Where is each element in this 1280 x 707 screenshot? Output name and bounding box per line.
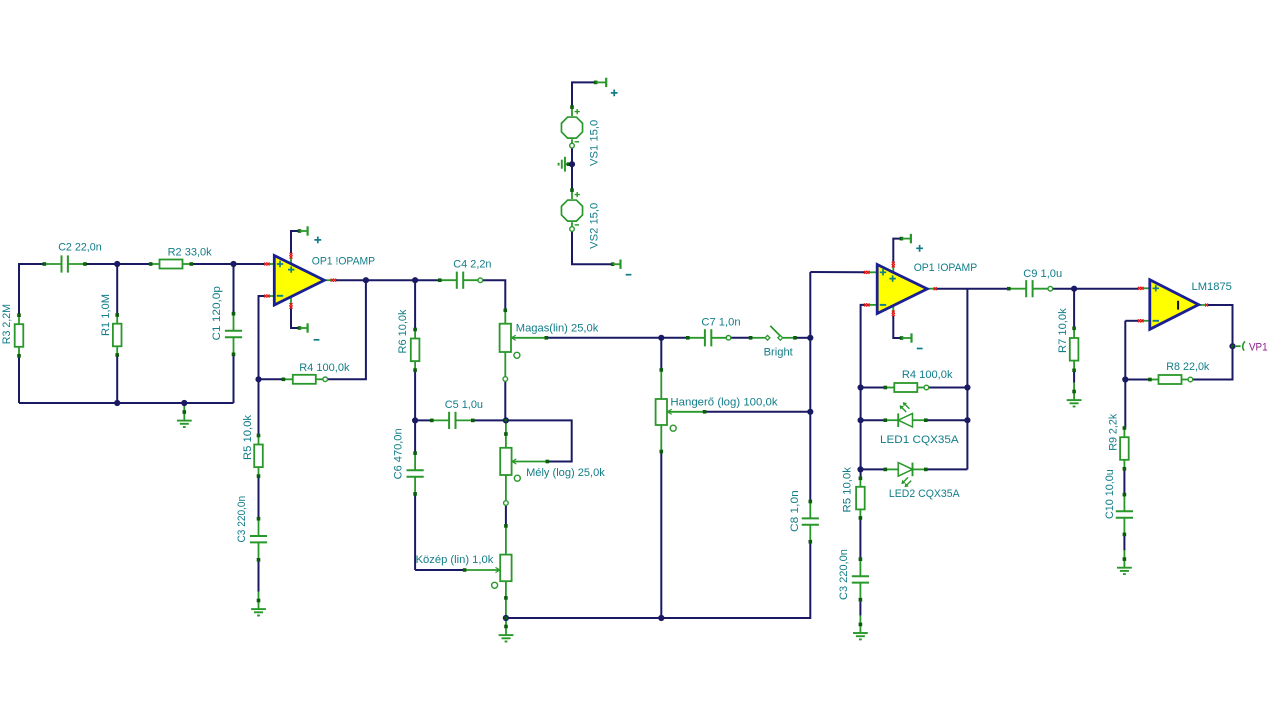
- svg-text:R9 2,2k: R9 2,2k: [1107, 413, 1119, 450]
- svg-text:Bright: Bright: [764, 347, 794, 359]
- svg-text:C2 22,0n: C2 22,0n: [58, 242, 101, 254]
- svg-text:Közép (lin) 1,0k: Közép (lin) 1,0k: [416, 554, 494, 566]
- svg-text:OP1 !OPAMP: OP1 !OPAMP: [914, 262, 978, 274]
- svg-text:C7 1,0n: C7 1,0n: [701, 316, 740, 328]
- svg-text:R1 1,0M: R1 1,0M: [100, 294, 112, 336]
- svg-text:R6 10,0k: R6 10,0k: [397, 309, 409, 353]
- svg-text:VP1: VP1: [1249, 342, 1268, 354]
- svg-text:Magas(lin) 25,0k: Magas(lin) 25,0k: [516, 323, 599, 335]
- svg-text:R5 10,0k: R5 10,0k: [842, 467, 854, 513]
- svg-text:R8 22,0k: R8 22,0k: [1166, 361, 1209, 373]
- svg-text:C1 120,0p: C1 120,0p: [211, 286, 223, 340]
- svg-text:VS2 15,0: VS2 15,0: [588, 203, 600, 249]
- svg-text:LED1 CQX35A: LED1 CQX35A: [880, 434, 959, 446]
- svg-text:C5 1,0u: C5 1,0u: [445, 399, 483, 411]
- svg-text:R7 10,0k: R7 10,0k: [1057, 308, 1069, 353]
- svg-text:C3 220,0n: C3 220,0n: [838, 549, 850, 600]
- svg-text:C3 220,0n: C3 220,0n: [236, 496, 248, 543]
- svg-text:C4 2,2n: C4 2,2n: [453, 258, 491, 270]
- svg-text:R2 33,0k: R2 33,0k: [168, 246, 212, 258]
- svg-text:C6 470,0n: C6 470,0n: [392, 428, 404, 479]
- svg-text:R4 100,0k: R4 100,0k: [299, 362, 350, 374]
- svg-text:OP1 !OPAMP: OP1 !OPAMP: [312, 256, 375, 268]
- svg-text:R4 100,0k: R4 100,0k: [902, 369, 953, 381]
- svg-text:C8 1,0n: C8 1,0n: [789, 490, 801, 532]
- svg-text:R3 2,2M: R3 2,2M: [1, 304, 13, 344]
- svg-text:LM1875: LM1875: [1192, 281, 1232, 293]
- svg-text:C10 10,0u: C10 10,0u: [1104, 469, 1116, 519]
- svg-text:VS1 15,0: VS1 15,0: [588, 120, 600, 166]
- svg-text:C9 1,0u: C9 1,0u: [1023, 268, 1062, 280]
- svg-text:R5 10,0k: R5 10,0k: [242, 415, 254, 460]
- svg-text:LED2 CQX35A: LED2 CQX35A: [889, 488, 960, 500]
- svg-text:Hangerő (log) 100,0k: Hangerő (log) 100,0k: [670, 397, 778, 409]
- svg-text:Mély (log) 25,0k: Mély (log) 25,0k: [526, 467, 605, 479]
